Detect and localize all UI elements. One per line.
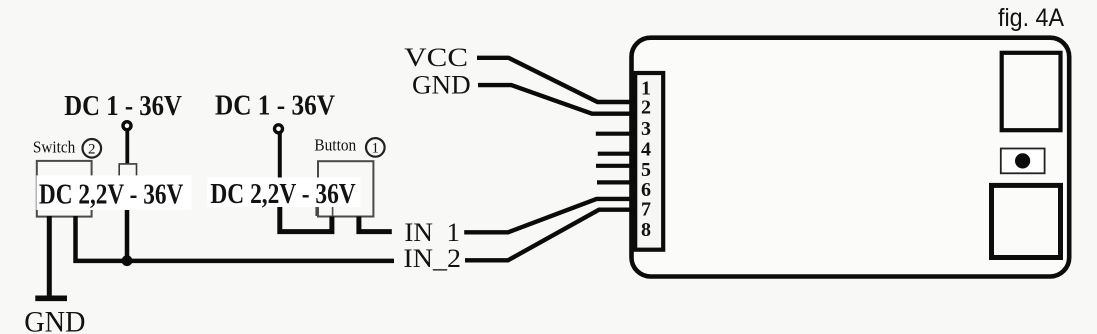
svg-text:DC 1 - 36V: DC 1 - 36V xyxy=(215,89,335,121)
svg-text:Button: Button xyxy=(314,136,356,155)
wire stub pin 3 xyxy=(596,132,636,136)
pushbutton S3 (small rect) xyxy=(1001,149,1045,174)
wire button pin2 to IN_1 net xyxy=(359,217,392,232)
terminal X1 ring (DC supply 1) xyxy=(123,122,131,130)
wire switch pin2 to IN_2 net xyxy=(76,216,395,261)
svg-text:6: 6 xyxy=(641,179,651,201)
button S1 box xyxy=(318,161,373,216)
svg-text:DC 2,2V - 36V: DC 2,2V - 36V xyxy=(39,178,183,210)
ground bar xyxy=(35,295,67,301)
svg-text:Switch: Switch xyxy=(33,138,76,157)
svg-text:1: 1 xyxy=(372,140,380,156)
pin header J1 xyxy=(635,73,663,250)
wire IN_2 to pin 8 xyxy=(465,210,636,261)
svg-text:2: 2 xyxy=(88,141,96,157)
svg-text:GND: GND xyxy=(412,71,471,100)
relay contact block K1 (top square) xyxy=(1002,53,1061,130)
svg-text:IN 1: IN 1 xyxy=(404,218,460,247)
svg-text:GND: GND xyxy=(24,306,85,334)
svg-text:3: 3 xyxy=(641,118,651,140)
svg-text:8: 8 xyxy=(641,219,651,241)
wire switch pin1 to ground xyxy=(47,216,52,296)
module U1 body xyxy=(632,38,1070,277)
wire stub pin 6 xyxy=(597,180,636,184)
wire stub pin 4 xyxy=(598,152,636,156)
svg-text:7: 7 xyxy=(641,199,651,221)
wire terminal X2 to button pin1 xyxy=(280,206,332,232)
wire terminal X1 down xyxy=(125,129,129,164)
button S1 box pin tick left xyxy=(316,205,332,216)
switch S2 box xyxy=(37,161,92,217)
svg-text:2: 2 xyxy=(641,97,651,119)
svg-text:IN_2: IN_2 xyxy=(403,244,461,273)
wire terminal X2 down xyxy=(278,132,282,178)
wire stub pin 5 xyxy=(596,164,636,168)
svg-text:4: 4 xyxy=(641,138,651,160)
wire VCC to pin 1 xyxy=(477,58,636,102)
pushbutton S3 actuator dot xyxy=(1015,153,1030,168)
circled 1 designator xyxy=(366,138,385,157)
svg-text:DC 2,2V - 36V: DC 2,2V - 36V xyxy=(210,178,355,210)
svg-text:5: 5 xyxy=(641,159,651,181)
wire IN_1 to pin 7 xyxy=(464,199,636,232)
svg-text:VCC: VCC xyxy=(404,43,468,72)
circled 2 designator xyxy=(83,139,102,158)
white band behind DC 2,2V label 1 xyxy=(36,175,191,210)
plug P1 thin outline xyxy=(119,164,136,181)
wire GND to pin 2 xyxy=(478,85,636,114)
terminal X2 ring (DC supply 2) xyxy=(275,125,283,133)
relay contact block K2 (bottom square) xyxy=(992,185,1061,257)
white band behind DC 2,2V label 2 xyxy=(207,178,360,208)
svg-text:fig. 4A: fig. 4A xyxy=(998,4,1064,32)
wire plug P1 to junction xyxy=(125,209,130,258)
svg-text:DC 1 - 36V: DC 1 - 36V xyxy=(64,90,182,122)
junction node on IN_2 net xyxy=(122,255,133,266)
